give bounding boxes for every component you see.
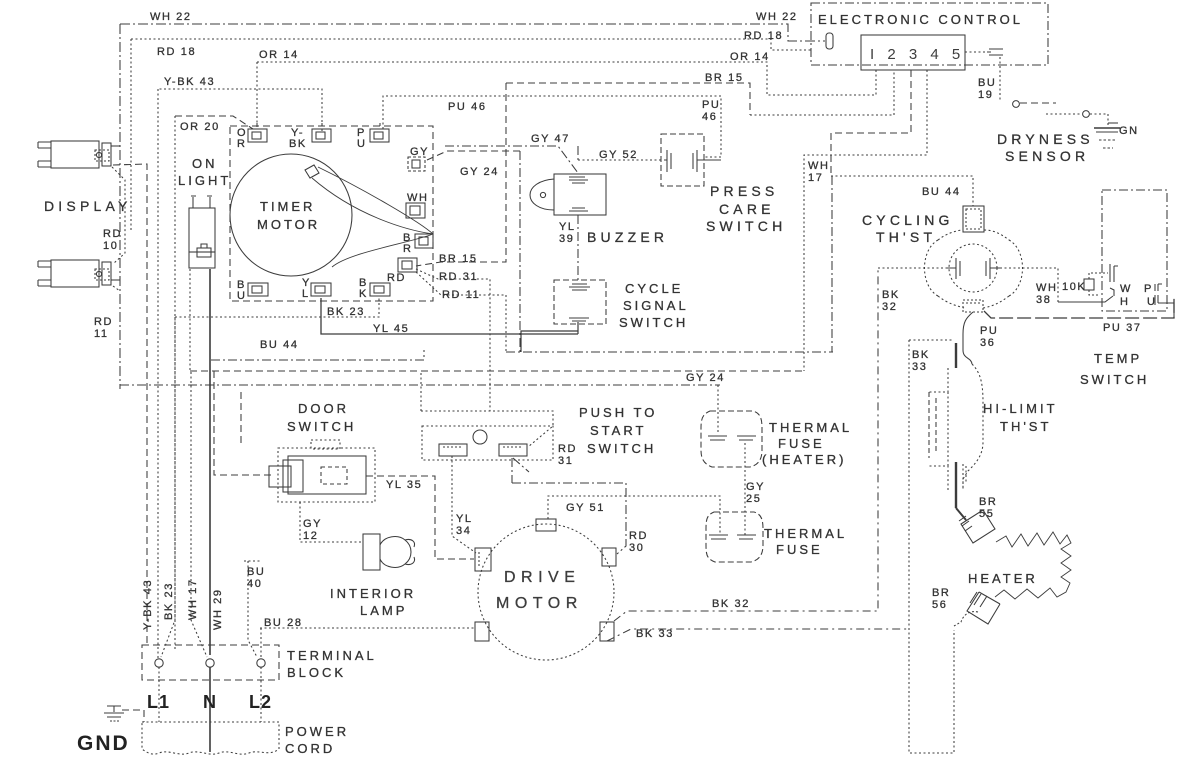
svg-text:GY: GY — [410, 146, 429, 158]
timer cam pointer — [305, 165, 319, 178]
timer terminal B-U — [248, 283, 268, 296]
wire BK 23 vertical to terminal block — [161, 317, 175, 657]
svg-text:P: P — [1144, 283, 1153, 295]
svg-text:K: K — [359, 288, 368, 300]
wire GY 12 door switch to interior lamp — [300, 502, 363, 542]
svg-text:36: 36 — [980, 337, 995, 349]
svg-text:LAMP: LAMP — [360, 603, 407, 618]
svg-text:32: 32 — [882, 301, 897, 313]
svg-text:GY 24: GY 24 — [686, 372, 725, 384]
wire press care to PU 46 vertical link — [702, 159, 721, 161]
svg-text:SWITCH: SWITCH — [287, 419, 356, 434]
svg-text:N: N — [203, 692, 217, 712]
temp switch terminal P-U — [1155, 284, 1174, 318]
wire BU 40 vertical — [244, 561, 260, 657]
svg-text:PUSH TO: PUSH TO — [579, 405, 657, 420]
wire BK 23 horizontal under timer — [175, 298, 379, 317]
wire WH 22 left vertical to GY 24 bus — [119, 24, 121, 389]
wire OR 14 bus — [257, 62, 876, 95]
wire Y-BK 43 long vertical to terminal L1 — [157, 89, 159, 659]
svg-text:HEATER: HEATER — [968, 571, 1038, 586]
svg-text:YL 45: YL 45 — [373, 323, 409, 335]
dryness sensor wire — [1046, 113, 1082, 115]
svg-text:BK 23: BK 23 — [163, 582, 175, 620]
svg-text:ELECTRONIC CONTROL: ELECTRONIC CONTROL — [818, 12, 1023, 27]
wire RD 18 bus — [131, 39, 811, 50]
wire YL 35 door switch to drive motor — [366, 476, 474, 559]
wire YL 39 buzzer to cycle signal — [577, 215, 579, 283]
svg-text:RD 11: RD 11 — [442, 289, 480, 301]
svg-text:H: H — [1120, 296, 1130, 308]
electronic control box — [811, 3, 1048, 65]
svg-text:RD: RD — [103, 228, 122, 240]
svg-text:U: U — [357, 138, 367, 150]
wire heater dotted boundary left — [909, 340, 954, 753]
svg-text:CARE: CARE — [719, 201, 775, 217]
svg-text:FUSE: FUSE — [776, 542, 823, 557]
svg-text:BR 15: BR 15 — [439, 253, 478, 265]
drive motor — [475, 519, 616, 660]
svg-text:BK: BK — [912, 349, 930, 361]
wire RD 18 vertical left — [130, 39, 132, 232]
svg-text:CYCLE: CYCLE — [625, 281, 683, 296]
wire WH 22 top bus — [120, 24, 825, 41]
ON light lamp — [189, 196, 215, 268]
svg-text:BUZZER: BUZZER — [587, 229, 668, 245]
svg-text:PU: PU — [702, 99, 720, 111]
svg-text:46: 46 — [702, 111, 717, 123]
door switch — [269, 440, 375, 502]
svg-text:30: 30 — [629, 542, 644, 554]
svg-text:WH: WH — [808, 160, 830, 172]
svg-text:33: 33 — [912, 361, 927, 373]
svg-text:OR 20: OR 20 — [180, 121, 220, 133]
interior lamp — [363, 534, 415, 570]
svg-text:THERMAL: THERMAL — [769, 420, 852, 435]
svg-text:WH: WH — [407, 192, 429, 204]
svg-text:DISPLAY: DISPLAY — [44, 198, 132, 214]
svg-text:BK 33: BK 33 — [636, 628, 674, 640]
svg-text:BK 23: BK 23 — [327, 306, 365, 318]
wire PU 46 — [383, 96, 721, 157]
svg-text:BK: BK — [289, 138, 307, 150]
svg-text:56: 56 — [932, 599, 947, 611]
svg-text:SWITCH: SWITCH — [619, 315, 688, 330]
svg-text:GY: GY — [303, 518, 322, 530]
electronic control capacitor — [826, 33, 833, 49]
svg-text:RD 31: RD 31 — [439, 271, 478, 283]
svg-text:TERMINAL: TERMINAL — [287, 648, 377, 663]
terminal block — [142, 645, 279, 680]
electronic control connector 1 2 3 4 5 — [861, 35, 965, 70]
heater plug BR 55 — [956, 508, 995, 543]
wire GY 24 branch to thermal fuse heater — [717, 385, 719, 433]
svg-text:17: 17 — [808, 172, 823, 184]
svg-text:RD: RD — [558, 443, 577, 455]
timer terminal RD — [398, 258, 417, 272]
svg-text:GY 24: GY 24 — [460, 166, 499, 178]
svg-text:L2: L2 — [249, 692, 272, 712]
wire YL 45 from timer Y-L terminal — [321, 298, 578, 334]
svg-text:MOTOR: MOTOR — [257, 217, 320, 232]
svg-text:25: 25 — [746, 493, 761, 505]
svg-text:BR 15: BR 15 — [705, 72, 744, 84]
svg-text:39: 39 — [559, 233, 574, 245]
timer terminal O-R — [248, 123, 267, 142]
svg-text:BLOCK: BLOCK — [287, 665, 346, 680]
svg-text:PU 46: PU 46 — [448, 101, 487, 113]
svg-text:SENSOR: SENSOR — [1005, 148, 1089, 164]
svg-text:OR 14: OR 14 — [259, 49, 299, 61]
svg-text:U: U — [237, 290, 247, 302]
wire terminal L1 leads — [158, 659, 160, 722]
svg-text:R: R — [403, 243, 413, 255]
svg-text:R: R — [237, 138, 247, 150]
wire y352 bus RD 11 to WH 17 — [506, 176, 833, 352]
wire Y-BK 43 bus — [158, 89, 322, 131]
svg-text:L1: L1 — [147, 692, 170, 712]
svg-text:12: 12 — [303, 530, 318, 542]
svg-text:CORD: CORD — [285, 741, 335, 756]
svg-text:SIGNAL: SIGNAL — [623, 298, 689, 313]
wire BR 15 vertical from timer tag — [416, 83, 506, 266]
svg-text:THERMAL: THERMAL — [764, 526, 847, 541]
svg-text:Y-BK 43: Y-BK 43 — [164, 76, 215, 88]
wire GY 24 mid vertical — [519, 151, 521, 352]
wire GY 51 bus — [548, 496, 720, 535]
wire door switch feed left — [214, 371, 271, 475]
svg-text:RD 18: RD 18 — [744, 30, 783, 42]
timer terminal Y-L — [311, 283, 331, 296]
svg-text:L: L — [302, 288, 310, 300]
hi-limit thermostat — [928, 343, 983, 508]
timer motor circle — [230, 154, 352, 276]
dryness sensor contact 2 — [1083, 111, 1090, 118]
temp switch internal contact — [1110, 264, 1118, 296]
wire GY 25 between thermal fuses — [744, 443, 746, 535]
ground GND symbol — [104, 706, 144, 722]
svg-text:DRYNESS: DRYNESS — [997, 131, 1094, 147]
wire GY 24 long bus — [120, 384, 720, 386]
svg-text:PRESS: PRESS — [710, 183, 778, 199]
wire display bottom to RD 11 vertical — [113, 286, 120, 291]
wire GY 47 — [445, 146, 578, 173]
svg-text:BU 44: BU 44 — [260, 339, 299, 351]
wire ON light left leg vertical — [189, 269, 191, 372]
WIRES-TOP — [120, 24, 1000, 659]
wire cycling left contact feed — [878, 267, 947, 269]
ground GN — [1090, 114, 1120, 148]
cycling thermostat — [925, 206, 1023, 312]
heater resistor element — [995, 532, 1071, 599]
svg-text:MOTOR: MOTOR — [496, 595, 583, 612]
WIRES-MID — [120, 176, 1174, 753]
wire BK 32 motor to cycling thermostat — [614, 268, 878, 621]
svg-text:BU 44: BU 44 — [922, 186, 961, 198]
wire RD 10 display loop — [112, 167, 125, 264]
thermal fuse heater — [701, 411, 762, 467]
push to start switch — [422, 426, 553, 460]
svg-text:38: 38 — [1036, 294, 1051, 306]
display connector bottom — [38, 260, 120, 287]
wire BU 44 right bus to cycling thermostat — [831, 176, 973, 206]
svg-text:40: 40 — [247, 578, 262, 590]
temp switch terminal W-H — [1058, 296, 1113, 302]
buzzer body — [530, 174, 606, 215]
svg-text:GY 51: GY 51 — [566, 502, 605, 514]
wire cycle signal bottom — [521, 322, 578, 352]
wire BR 15 bus — [506, 83, 750, 115]
svg-text:BR: BR — [932, 587, 950, 599]
svg-text:YL: YL — [559, 221, 576, 233]
svg-text:GY 47: GY 47 — [531, 133, 570, 145]
wire BU 19 from electronic control — [965, 52, 1000, 101]
power cord — [142, 722, 279, 754]
wire display to mid vertical — [113, 164, 147, 645]
wire BK 33 motor to heater loop — [607, 629, 909, 641]
svg-text:WH: WH — [1036, 282, 1058, 294]
electronic control output tab — [987, 49, 1003, 55]
wire RD 30 push-to-start to motor — [512, 458, 626, 554]
svg-text:31: 31 — [558, 455, 573, 467]
svg-text:SWITCH: SWITCH — [1080, 372, 1149, 387]
display connector top — [38, 141, 120, 168]
svg-text:POWER: POWER — [285, 724, 349, 739]
svg-text:U: U — [1147, 296, 1157, 308]
wire OR 20 vertical — [174, 116, 176, 649]
svg-text:DOOR: DOOR — [298, 401, 349, 416]
svg-text:RD: RD — [629, 530, 648, 542]
heater plug BR 56 — [954, 592, 1000, 626]
svg-text:HI-LIMIT: HI-LIMIT — [983, 401, 1058, 416]
svg-text:BR: BR — [979, 496, 997, 508]
svg-text:YL: YL — [456, 513, 473, 525]
wire mid dashed bus y372 — [190, 370, 804, 372]
svg-text:DRIVE: DRIVE — [504, 569, 580, 586]
svg-text:YL 35: YL 35 — [386, 479, 422, 491]
svg-text:55: 55 — [979, 508, 994, 520]
wire YL 34 push-to-start to motor — [452, 456, 476, 553]
svg-text:GY 52: GY 52 — [599, 149, 638, 161]
wire GY 24 stub from timer GY terminal — [427, 151, 520, 160]
svg-text:34: 34 — [456, 525, 471, 537]
svg-text:ON: ON — [192, 156, 218, 171]
dryness sensor contact 1 — [1013, 101, 1020, 108]
wire GY 52 — [578, 159, 663, 161]
svg-text:10K: 10K — [1062, 281, 1086, 293]
wire RD 11 tag from timer — [416, 272, 506, 352]
svg-text:TIMER: TIMER — [260, 199, 315, 214]
timer terminal GY — [408, 157, 425, 171]
svg-text:WH 22: WH 22 — [150, 11, 192, 23]
dryness sensor arm — [1020, 102, 1056, 104]
svg-text:PU 37: PU 37 — [1103, 322, 1142, 334]
svg-text:WH 29: WH 29 — [212, 588, 224, 630]
wire BU 28 to motor — [260, 627, 476, 629]
wire RD 31 from timer to push-to-start — [416, 269, 553, 447]
timer box — [230, 126, 433, 301]
temp switch box — [1102, 190, 1167, 311]
10K resistor — [1084, 273, 1108, 295]
svg-text:I 2 3 4 5: I 2 3 4 5 — [870, 46, 965, 63]
wire BU 28 drop to terminal L2 — [260, 628, 262, 722]
svg-text:BU: BU — [978, 77, 996, 89]
svg-text:10: 10 — [103, 240, 118, 252]
wire OR 20 — [175, 116, 253, 129]
svg-text:19: 19 — [978, 89, 993, 101]
svg-text:TH'ST: TH'ST — [1000, 419, 1051, 434]
svg-text:11: 11 — [94, 328, 109, 340]
svg-text:LIGHT: LIGHT — [178, 173, 231, 188]
svg-text:RD: RD — [94, 316, 113, 328]
svg-text:TEMP: TEMP — [1094, 351, 1142, 366]
timer terminal Y-BK — [312, 123, 331, 142]
svg-text:(HEATER): (HEATER) — [762, 452, 846, 467]
svg-text:GY: GY — [746, 481, 765, 493]
wire PU 37 bus — [984, 296, 1174, 318]
svg-text:RD 18: RD 18 — [157, 46, 196, 58]
svg-text:WH 22: WH 22 — [756, 11, 798, 23]
press care switch — [661, 134, 704, 186]
svg-text:PU: PU — [980, 325, 998, 337]
svg-text:BU 28: BU 28 — [264, 617, 303, 629]
svg-text:SWITCH: SWITCH — [706, 218, 786, 234]
wire WH 29 solid from ON light to power cord — [209, 269, 211, 752]
wire cycling right to WH 38 node — [1000, 268, 1058, 302]
svg-text:INTERIOR: INTERIOR — [330, 586, 416, 601]
timer terminal B-K — [370, 283, 390, 296]
svg-text:GND: GND — [77, 732, 130, 755]
svg-text:RD: RD — [387, 272, 406, 284]
svg-text:FUSE: FUSE — [778, 436, 825, 451]
wire pin4 to BU 44 right bus — [831, 70, 911, 176]
timer terminal BR — [415, 234, 433, 248]
svg-text:SWITCH: SWITCH — [587, 441, 656, 456]
svg-text:START: START — [590, 423, 646, 438]
cycle signal switch — [554, 280, 606, 324]
svg-text:WH 17: WH 17 — [187, 578, 199, 620]
wire pin3 bus to electronic control — [750, 70, 894, 115]
wire WH 17 column to terminal N — [191, 372, 207, 657]
svg-text:CYCLING: CYCLING — [862, 212, 954, 228]
svg-text:BU: BU — [247, 566, 265, 578]
svg-text:OR 14: OR 14 — [730, 51, 770, 63]
wire pin5 to WH 17 vertical — [804, 70, 927, 371]
svg-text:BK 32: BK 32 — [712, 598, 750, 610]
wire PU 36 cycling to hi-limit — [963, 312, 973, 364]
timer terminal WH — [406, 203, 425, 218]
svg-text:TH'ST: TH'ST — [876, 229, 936, 245]
thermal fuse — [706, 512, 763, 562]
svg-text:W: W — [1120, 283, 1132, 295]
svg-text:Y-BK 43: Y-BK 43 — [142, 579, 154, 630]
svg-text:BK: BK — [882, 289, 900, 301]
wire OR 14 drop to timer O-R terminal — [256, 62, 258, 128]
svg-text:GN: GN — [1119, 125, 1139, 137]
wire BU 44 left segment — [211, 350, 424, 360]
timer terminal P-U — [370, 123, 389, 142]
